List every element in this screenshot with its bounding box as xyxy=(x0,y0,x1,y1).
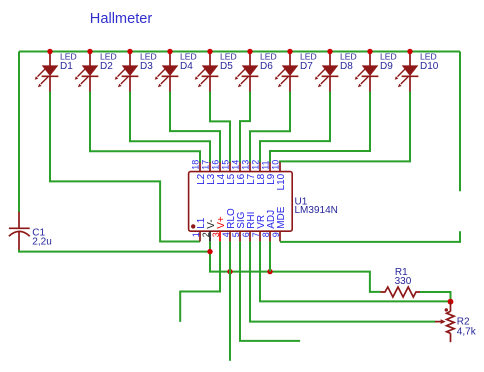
svg-text:6: 6 xyxy=(241,232,251,237)
wire pin7 VR to R1/R2 junction xyxy=(260,241,451,301)
junction dot LED D4 anode xyxy=(167,49,172,54)
wire LED D9 cathode to U1 xyxy=(270,92,370,163)
junction dot pin4 RLO xyxy=(227,269,232,274)
wire LED D3 cathode to U1 xyxy=(130,92,210,163)
svg-text:5: 5 xyxy=(231,232,241,237)
wire left rail to C1 xyxy=(18,52,20,213)
junction dot LED D7 anode xyxy=(287,49,292,54)
svg-text:D8: D8 xyxy=(340,61,353,72)
svg-text:16: 16 xyxy=(211,160,221,170)
LED D8 xyxy=(315,52,339,92)
svg-text:8: 8 xyxy=(261,232,271,237)
svg-text:14: 14 xyxy=(231,160,241,170)
svg-text:3: 3 xyxy=(211,232,221,237)
LED D2 xyxy=(75,52,99,92)
wire V- net: pin2 to C1 rail and divider xyxy=(210,241,381,292)
wire LED D8 cathode to U1 xyxy=(260,92,330,163)
svg-text:18: 18 xyxy=(191,160,201,170)
wire pin5 SIG (open end) xyxy=(240,241,300,341)
pin 8 (ADJ) stub xyxy=(269,231,271,241)
svg-text:330: 330 xyxy=(395,276,412,287)
pin 14 (L6) stub xyxy=(239,162,241,171)
junction dot pin8 ADJ xyxy=(267,269,272,274)
wire pin4 RLO down (open end) xyxy=(229,241,231,360)
wire pin3 V+ stub (open end) xyxy=(180,241,220,322)
svg-text:17: 17 xyxy=(201,160,211,170)
junction dot LED D6 anode xyxy=(247,49,252,54)
pin 4 (RLO) stub xyxy=(229,231,231,241)
LED D3 xyxy=(115,52,139,92)
wire C1 to V- net xyxy=(19,250,210,252)
svg-text:D1: D1 xyxy=(60,61,73,72)
pin 1 marker dot xyxy=(191,224,195,228)
wire LED D2 cathode to U1 xyxy=(90,92,200,163)
pin 18 (L2) stub xyxy=(199,162,201,171)
pin 10 (L10) stub xyxy=(279,162,281,171)
wire pin9 MDE to right (open end) xyxy=(280,231,460,242)
svg-text:Hallmeter: Hallmeter xyxy=(90,11,153,27)
svg-text:10: 10 xyxy=(271,160,281,170)
LED D10 xyxy=(395,52,419,92)
svg-text:11: 11 xyxy=(261,160,271,169)
svg-text:4,7k: 4,7k xyxy=(457,327,477,338)
potentiometer R2 xyxy=(435,302,454,343)
wire LED D5 cathode to U1 xyxy=(210,92,230,163)
svg-text:D2: D2 xyxy=(100,61,113,72)
LED D5 xyxy=(195,52,219,92)
junction dot pin2/C1 xyxy=(207,249,212,254)
svg-text:9: 9 xyxy=(271,232,281,237)
pin 11 (L9) stub xyxy=(269,162,271,171)
resistor R1 xyxy=(381,287,421,297)
wire LED D6 cathode to U1 xyxy=(240,92,250,163)
pin 7 (VR) stub xyxy=(259,231,261,241)
junction dot LED D5 anode xyxy=(207,49,212,54)
wire LED D1 cathode to U1 xyxy=(50,92,200,242)
svg-text:LM3914N: LM3914N xyxy=(295,205,338,216)
LED D4 xyxy=(155,52,179,92)
svg-text:1: 1 xyxy=(191,232,201,237)
LED D7 xyxy=(275,52,299,92)
wire LED D4 cathode to U1 xyxy=(170,92,220,163)
svg-text:L10: L10 xyxy=(276,173,287,190)
wire LED D7 cathode to U1 xyxy=(250,92,290,163)
svg-text:D3: D3 xyxy=(140,61,153,72)
junction dot LED D8 anode xyxy=(327,49,332,54)
svg-text:D6: D6 xyxy=(260,61,273,72)
pin 2 (V-) stub xyxy=(209,231,211,241)
capacitor C1 xyxy=(9,212,30,250)
svg-text:D10: D10 xyxy=(420,61,439,72)
op-amp U1 LM3914N body xyxy=(189,172,293,232)
pin 5 (SIG) stub xyxy=(239,231,241,241)
wire V+ top rail xyxy=(19,51,460,53)
pin 6 (RHI) stub xyxy=(249,231,251,241)
svg-text:4: 4 xyxy=(221,232,231,237)
pin 12 (L8) stub xyxy=(259,162,261,171)
wire V+ right drop (open end) xyxy=(459,52,461,192)
junction dot LED D9 anode xyxy=(367,49,372,54)
svg-text:12: 12 xyxy=(251,160,261,170)
svg-text:D4: D4 xyxy=(180,61,193,72)
svg-text:D9: D9 xyxy=(380,61,393,72)
junction dot R1/R2/pin7 xyxy=(448,299,454,305)
pin 3 (V+) stub xyxy=(219,231,221,241)
pin 17 (L3) stub xyxy=(209,162,211,171)
LED D9 xyxy=(355,52,379,92)
pin 16 (L4) stub xyxy=(219,162,221,171)
wire pin6 RHI to R2 wiper xyxy=(250,241,435,321)
junction dot LED D1 anode xyxy=(47,49,52,54)
svg-text:D7: D7 xyxy=(300,61,313,72)
junction dot LED D10 anode xyxy=(407,49,412,54)
wire R1 to junction xyxy=(420,292,451,302)
svg-text:MDE: MDE xyxy=(276,206,287,229)
svg-text:7: 7 xyxy=(251,232,261,237)
junction dot LED D3 anode xyxy=(127,49,132,54)
LED D6 xyxy=(235,52,259,92)
LED D1 xyxy=(35,52,59,92)
svg-text:2: 2 xyxy=(201,232,211,237)
wire LED D10 cathode to U1 xyxy=(280,92,410,163)
pin 9 (MDE) stub xyxy=(279,231,281,241)
pin 13 (L7) stub xyxy=(249,162,251,171)
junction dot LED D2 anode xyxy=(87,49,92,54)
wire pin8 ADJ to net xyxy=(269,241,271,271)
pin 15 (L5) stub xyxy=(229,162,231,171)
pin 1 (L1) stub xyxy=(199,231,201,241)
svg-text:15: 15 xyxy=(221,160,231,170)
svg-text:2,2u: 2,2u xyxy=(32,237,51,248)
svg-text:13: 13 xyxy=(241,160,251,170)
svg-text:D5: D5 xyxy=(220,61,233,72)
